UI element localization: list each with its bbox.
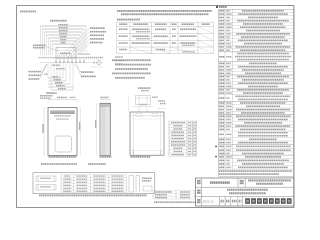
channel drawing right (129, 176, 134, 193)
spec table outer (219, 9, 294, 176)
color table (152, 191, 154, 199)
piping box table (60, 175, 62, 193)
mass table (168, 121, 170, 156)
label under side view (100, 156, 112, 158)
intro paragraph line1 (117, 10, 212, 12)
ladder extension verticals (40, 26, 42, 55)
connection table (117, 21, 214, 23)
bracket detail (138, 87, 150, 89)
right leader labels top (90, 27, 105, 29)
note under color table (154, 201, 196, 203)
louver (51, 111, 75, 114)
title block frame (196, 178, 294, 206)
label above box 2 (88, 163, 106, 165)
label under front view (49, 156, 77, 158)
pipe cover drawing lower-left (36, 185, 56, 191)
between dims (80, 108, 82, 156)
left labels mid (33, 45, 45, 47)
front left dim (43, 108, 45, 156)
sheet frame (17, 6, 295, 208)
dense tick row on band (39, 57, 41, 59)
top-left diagram title (50, 20, 67, 22)
exhaust circles (97, 60, 102, 65)
pipe cover drawing upper-left (36, 176, 56, 182)
spec label columns (224, 9, 226, 169)
rear view (130, 112, 164, 155)
spec section bullets (215, 146, 217, 148)
rear dims right (158, 100, 165, 101)
spec table row lines (219, 11, 294, 13)
front view (48, 108, 77, 156)
side view (100, 103, 111, 155)
label under rear view (131, 156, 151, 158)
row2 content (197, 190, 201, 192)
piping box (33, 173, 155, 194)
note under piping box (39, 195, 147, 197)
intro paragraph line2 (121, 13, 208, 15)
label above box 1 (41, 163, 77, 165)
base band line (38, 57, 103, 59)
right leader labels lower (81, 71, 93, 73)
dimension ladder top (41, 25, 87, 27)
central cluster (56, 48, 76, 59)
notes under table (112, 59, 151, 61)
small dim labels near stubs (52, 65, 60, 66)
spec table title (216, 6, 218, 8)
svg-text:2022.12: 2022.12 (203, 200, 214, 204)
lower dimension ladder (47, 62, 49, 78)
left labels lower (29, 71, 41, 73)
access panel (55, 136, 72, 152)
side top dim label (101, 97, 109, 99)
table caption (117, 19, 140, 21)
front top dim line (48, 99, 77, 101)
front top dim label (57, 97, 67, 99)
spec darker section separators (219, 51, 294, 53)
cluster extra marks (58, 54, 60, 58)
connection stubs (55, 58, 57, 63)
row3 cells (219, 197, 221, 206)
diagonal slashes (198, 27, 214, 34)
row1 content (197, 180, 201, 182)
unit label (tanni:mm) (20, 11, 36, 13)
company name (245, 198, 250, 204)
spec bottom notes (219, 170, 292, 172)
spec content (219, 10, 224, 12)
